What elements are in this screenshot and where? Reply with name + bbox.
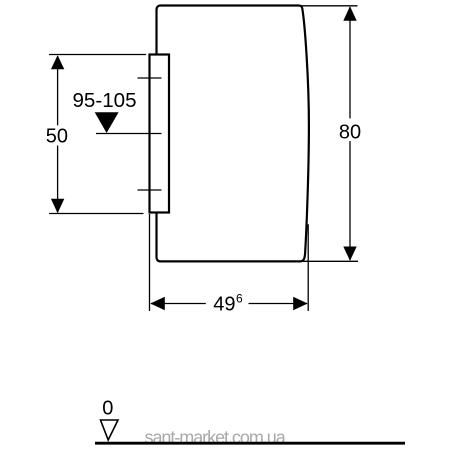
ground line [95,442,405,445]
svg-text:95-105: 95-105 [72,89,136,112]
dimension line 50 upper segment [57,56,59,125]
svg-text:80: 80 [339,122,361,144]
datum triangle [101,420,119,440]
arrowhead 80 bottom [343,247,356,261]
body outline [157,6,309,262]
dimension line 80 lower segment [349,141,351,260]
extension line rail top [49,54,146,56]
arrowhead 50 top [51,55,64,69]
extension line body top right [300,5,358,7]
svg-text:0: 0 [102,397,113,419]
arrowhead 80 top [343,6,356,20]
extension line depth right [307,224,309,311]
arrowhead 50 bottom [51,199,64,214]
arrowhead 496 left [150,297,165,310]
arrowhead 496 right [293,297,308,310]
dimension line 80 upper segment [349,7,351,118]
svg-text:6: 6 [236,292,243,306]
dimension line 496 left segment [151,303,206,305]
water level line [96,133,162,135]
extension line body bottom right [303,260,358,262]
dimension line 496 right segment [249,303,308,305]
mounting rail [150,55,170,213]
dimension line 50 lower segment [57,146,59,213]
tick mark upper [138,77,162,79]
tick mark lower [138,189,162,191]
svg-text:49: 49 [213,294,235,316]
extension line depth left [149,214,151,311]
svg-text:50: 50 [46,126,68,148]
extension line rail bottom [49,213,144,215]
level marker triangle [95,112,119,133]
